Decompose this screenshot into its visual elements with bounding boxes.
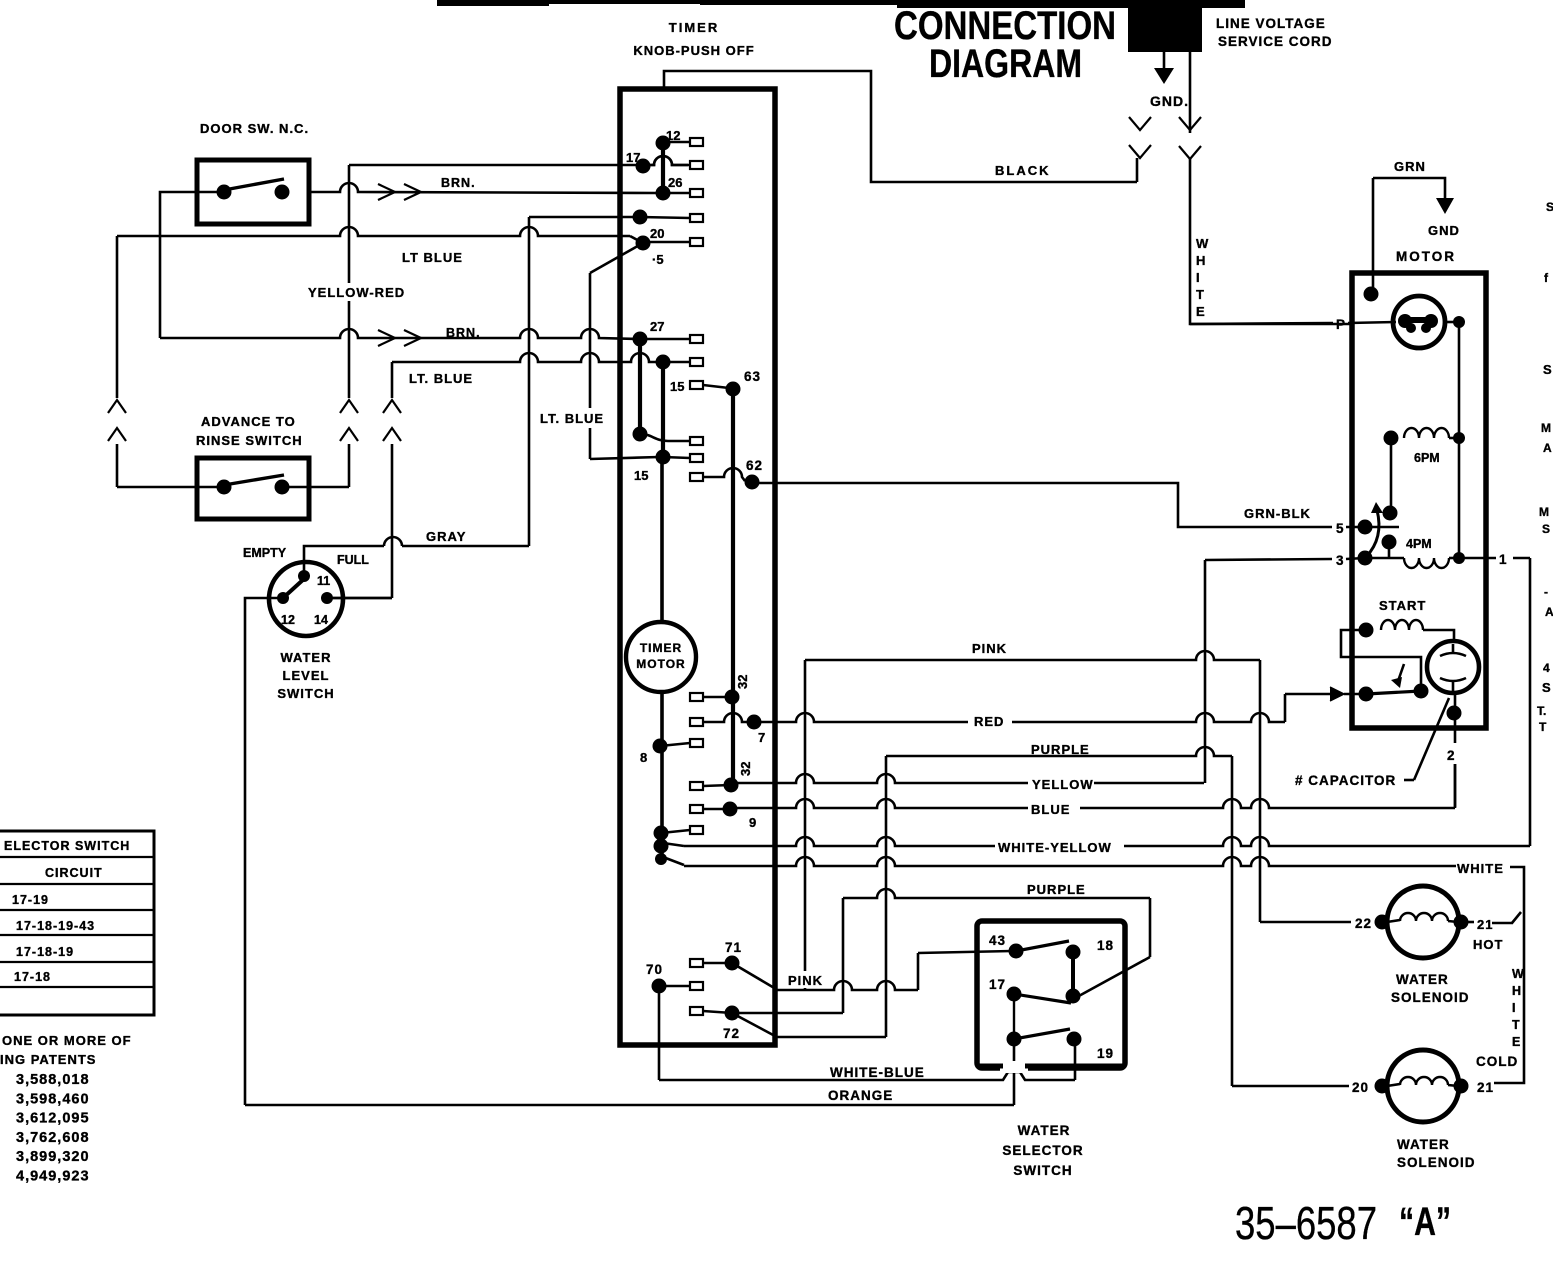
svg-text:17: 17 [989, 977, 1006, 992]
svg-text:COLD: COLD [1476, 1054, 1518, 1069]
svg-text:H: H [1196, 253, 1205, 268]
svg-text:-: - [1544, 585, 1548, 599]
svg-text:8: 8 [640, 750, 647, 765]
svg-text:S: S [1542, 680, 1551, 695]
svg-text:START: START [1379, 598, 1426, 613]
svg-text:GND.: GND. [1150, 93, 1189, 109]
svg-text:SERVICE CORD: SERVICE CORD [1218, 34, 1333, 49]
svg-text:HOT: HOT [1473, 937, 1503, 952]
svg-text:GRN: GRN [1394, 159, 1426, 174]
svg-text:T.: T. [1537, 704, 1546, 718]
svg-text:·5: ·5 [652, 252, 664, 267]
svg-text:WATER: WATER [281, 650, 332, 665]
svg-text:“A”: “A” [1399, 1200, 1451, 1244]
svg-text:18: 18 [1097, 938, 1114, 953]
svg-text:TIMER: TIMER [669, 20, 719, 35]
svg-text:22: 22 [1355, 916, 1372, 931]
svg-text:KNOB-PUSH OFF: KNOB-PUSH OFF [633, 43, 754, 58]
svg-text:WATER: WATER [1018, 1123, 1071, 1138]
svg-text:17-19: 17-19 [12, 893, 49, 907]
svg-text:15: 15 [670, 379, 684, 394]
svg-text:6PM: 6PM [1414, 451, 1440, 465]
svg-text:11: 11 [317, 574, 330, 588]
svg-text:WHITE: WHITE [1457, 861, 1504, 876]
svg-text:H: H [1512, 984, 1521, 998]
svg-text:SWITCH: SWITCH [1013, 1163, 1072, 1178]
svg-text:9: 9 [749, 815, 756, 830]
svg-text:T: T [1196, 287, 1204, 302]
svg-text:I: I [1512, 1001, 1515, 1015]
svg-text:MOTOR: MOTOR [636, 657, 685, 671]
svg-text:WHITE-YELLOW: WHITE-YELLOW [998, 840, 1112, 855]
svg-text:SWITCH: SWITCH [277, 686, 334, 701]
svg-text:YELLOW: YELLOW [1032, 777, 1094, 792]
svg-text:TIMER: TIMER [640, 641, 682, 655]
svg-text:70: 70 [646, 962, 663, 977]
svg-text:LINE VOLTAGE: LINE VOLTAGE [1216, 16, 1326, 31]
svg-text:BRN.: BRN. [441, 176, 476, 190]
svg-text:1: 1 [1499, 552, 1508, 567]
svg-text:CIRCUIT: CIRCUIT [45, 866, 103, 880]
svg-text:3,899,320: 3,899,320 [16, 1149, 90, 1165]
svg-text:ING PATENTS: ING PATENTS [0, 1052, 96, 1067]
svg-text:2: 2 [1447, 748, 1456, 763]
svg-text:4PM: 4PM [1406, 537, 1432, 551]
svg-text:S: S [1542, 522, 1550, 536]
svg-text:32: 32 [735, 675, 750, 689]
svg-text:15: 15 [634, 468, 648, 483]
svg-text:3,762,608: 3,762,608 [16, 1130, 90, 1146]
svg-text:21: 21 [1477, 917, 1493, 932]
svg-text:A: A [1543, 441, 1552, 455]
svg-text:M: M [1539, 505, 1549, 519]
svg-text:71: 71 [725, 940, 742, 955]
svg-text:RINSE SWITCH: RINSE SWITCH [196, 433, 303, 448]
svg-text:17-18-19: 17-18-19 [16, 945, 74, 959]
svg-text:WHITE-BLUE: WHITE-BLUE [830, 1065, 925, 1080]
svg-text:PINK: PINK [788, 973, 823, 988]
svg-text:E: E [1512, 1035, 1520, 1049]
svg-text:3,598,460: 3,598,460 [16, 1091, 90, 1107]
svg-text:ORANGE: ORANGE [828, 1088, 893, 1103]
svg-text:E: E [1196, 304, 1205, 319]
svg-text:43: 43 [989, 933, 1006, 948]
svg-text:4,949,923: 4,949,923 [16, 1169, 90, 1185]
svg-text:BLACK: BLACK [995, 163, 1051, 178]
svg-text:5: 5 [1336, 521, 1345, 536]
svg-text:63: 63 [744, 369, 761, 384]
svg-text:3,612,095: 3,612,095 [16, 1111, 90, 1127]
svg-text:MOTOR: MOTOR [1396, 249, 1456, 264]
svg-text:62: 62 [746, 458, 763, 473]
svg-text:20: 20 [1352, 1080, 1369, 1095]
svg-text:20: 20 [650, 226, 664, 241]
svg-text:EMPTY: EMPTY [243, 546, 287, 560]
svg-text:SOLENOID: SOLENOID [1391, 990, 1470, 1005]
svg-text:M: M [1541, 421, 1551, 435]
svg-text:S: S [1546, 200, 1553, 214]
svg-text:LT. BLUE: LT. BLUE [409, 371, 473, 386]
svg-text:A: A [1545, 605, 1553, 619]
svg-text:3: 3 [1336, 553, 1345, 568]
svg-text:SELECTOR: SELECTOR [1002, 1143, 1083, 1158]
svg-text:12: 12 [281, 613, 295, 627]
svg-text:DIAGRAM: DIAGRAM [929, 42, 1082, 86]
svg-text:T: T [1512, 1018, 1520, 1032]
svg-text:72: 72 [723, 1026, 740, 1041]
svg-text:19: 19 [1097, 1046, 1114, 1061]
svg-text:PURPLE: PURPLE [1031, 742, 1090, 757]
svg-text:RED: RED [974, 714, 1004, 729]
svg-text:4: 4 [1543, 661, 1550, 675]
svg-text:35–6587: 35–6587 [1235, 1197, 1377, 1249]
svg-text:GRAY: GRAY [426, 529, 466, 544]
svg-text:LT. BLUE: LT. BLUE [540, 411, 604, 426]
svg-text:T: T [1539, 720, 1547, 734]
svg-text:SOLENOID: SOLENOID [1397, 1155, 1476, 1170]
svg-text:# CAPACITOR: # CAPACITOR [1295, 773, 1396, 788]
svg-text:W: W [1196, 236, 1209, 251]
svg-text:PINK: PINK [972, 641, 1007, 656]
svg-text:7: 7 [758, 730, 765, 745]
svg-text:ONE OR MORE OF: ONE OR MORE OF [2, 1033, 132, 1048]
svg-text:BRN.: BRN. [446, 326, 481, 340]
svg-text:32: 32 [738, 762, 753, 776]
svg-text:FULL: FULL [337, 553, 369, 567]
svg-text:W: W [1512, 967, 1524, 981]
svg-text:LT BLUE: LT BLUE [402, 250, 463, 265]
svg-text:ADVANCE TO: ADVANCE TO [201, 414, 296, 429]
svg-text:GND: GND [1428, 223, 1460, 238]
svg-text:26: 26 [668, 175, 682, 190]
svg-text:S: S [1543, 362, 1552, 377]
svg-text:P: P [1336, 317, 1346, 332]
svg-text:21: 21 [1477, 1080, 1494, 1095]
svg-text:14: 14 [314, 613, 328, 627]
svg-text:17-18-19-43: 17-18-19-43 [16, 919, 95, 933]
svg-text:WATER: WATER [1396, 972, 1449, 987]
svg-text:27: 27 [650, 319, 664, 334]
svg-text:I: I [1196, 270, 1200, 285]
svg-text:3,588,018: 3,588,018 [16, 1072, 90, 1088]
svg-text:LEVEL: LEVEL [283, 668, 330, 683]
svg-text:BLUE: BLUE [1031, 802, 1070, 817]
svg-text:DOOR SW. N.C.: DOOR SW. N.C. [200, 121, 309, 136]
svg-text:17: 17 [626, 150, 640, 165]
svg-text:ELECTOR SWITCH: ELECTOR SWITCH [4, 839, 130, 853]
svg-text:GRN-BLK: GRN-BLK [1244, 506, 1311, 521]
svg-text:WATER: WATER [1397, 1137, 1450, 1152]
svg-text:17-18: 17-18 [14, 970, 51, 984]
svg-text:PURPLE: PURPLE [1027, 882, 1086, 897]
svg-text:YELLOW-RED: YELLOW-RED [308, 285, 405, 300]
